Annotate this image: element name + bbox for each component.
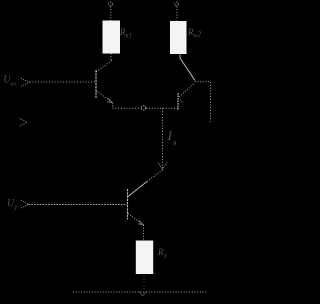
supply terminal circle left (+Ek) [109, 2, 113, 6]
transistor Q3 collector lead lower segment (solid) [128, 182, 147, 197]
transistor Q2 base bar [177, 93, 179, 110]
input arrow terminal 2 (middle stub) [20, 118, 27, 126]
wire: Rk1 bottom to Q1 collector [110, 54, 112, 61]
wire: control input base wire [29, 204, 128, 206]
transistor Q2 emitter arrow mark [180, 100, 183, 103]
wire: Q3 emitter to Re [143, 225, 145, 241]
wire: collector node to output stub horizontal [195, 81, 211, 83]
transistor Q3 base bar [127, 189, 129, 220]
wire: Rk2 to Q2 collector node (solid diagonal) [180, 58, 195, 81]
transistor Q1 collector lead [96, 61, 112, 73]
wire: common emitter rail [113, 107, 178, 109]
wire: input 1 base wire [30, 81, 96, 83]
wire: output stub vertical [210, 82, 212, 122]
ground rail notch [140, 292, 146, 296]
input arrow terminal Uy [21, 200, 29, 208]
current arrow Ie on wire [158, 163, 167, 170]
resistor Re body [136, 241, 153, 275]
resistor Rk2 body [170, 21, 187, 54]
transistor Q1 emitter lead with arrow [97, 91, 113, 103]
transistor Q2 collector lead [179, 84, 194, 98]
node: common emitter junction circle [141, 106, 145, 110]
wire: Rk2 bottom short drop [179, 55, 181, 59]
wire: down from emitter rail (Ie) [162, 109, 164, 171]
wire: Q1 emitter drop [112, 103, 114, 109]
resistor Rk1 body [103, 21, 121, 54]
transistor Q1 base bar [95, 70, 97, 98]
input arrow terminal Uvx [21, 78, 30, 86]
wire: Re bottom to ground rail [143, 276, 145, 292]
supply terminal circle right (+Ek) [175, 2, 179, 6]
wire: top supply to Rk1 [110, 7, 112, 21]
transistor Q3 collector lead upper segment [147, 170, 163, 182]
wire: top supply to Rk2 [176, 7, 178, 21]
transistor Q3 emitter lead with arrow [128, 214, 143, 225]
ground rail [73, 291, 206, 293]
